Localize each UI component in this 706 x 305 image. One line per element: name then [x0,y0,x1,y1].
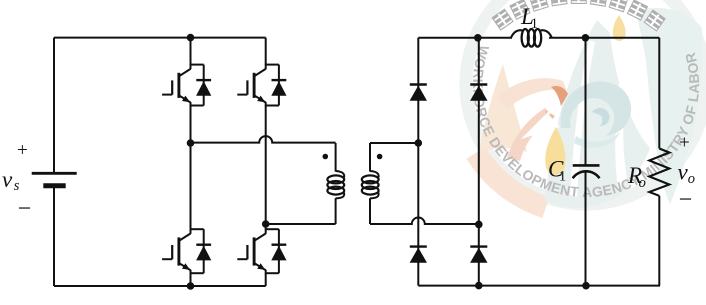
battery Vs [53,38,55,173]
wire secondary top [370,142,418,144]
node rail2 bottom [475,282,483,290]
wire leg1 lower [190,273,192,286]
wire Ro upper [658,38,660,149]
wire leg1 mid to primary (hop over leg2) [191,136,336,143]
watermark peach triangle [479,64,527,152]
capacitor C1 [573,165,600,178]
wire left lower [53,186,55,286]
watermark peach ring band [476,153,546,208]
wire leg1 upper [190,38,192,65]
node leg1 midpoint [187,139,195,147]
transformer T1 secondary winding [362,143,379,224]
watermark chinese ring text [491,8,513,30]
watermark outer ring [466,0,706,204]
wire Ro lower [658,196,660,286]
node C1 bottom [582,282,590,290]
wire leg2 upper [265,38,267,65]
polarity dot secondary [377,154,383,160]
svg-text:−: − [18,196,32,222]
node top rail / leg1 [187,34,195,42]
wire secondary bottom (hop over rail1) [370,218,479,224]
wire bottom rail left [54,285,266,287]
wire bottom rail right [418,285,660,287]
wire top rail right (right of L1) [549,37,659,39]
node rail2 top [474,34,482,42]
wire leg2 lower [265,273,267,286]
node rail2 secondary tap [475,221,483,229]
wire primary bottom [266,223,336,225]
battery plate long [32,172,77,175]
wire rail1 [417,38,419,286]
watermark teal fan [545,20,650,208]
inductor L1 [511,29,552,47]
diode D1 [410,85,427,101]
watermark red vertex accent [551,86,568,106]
watermark teal knot comma [592,108,610,126]
node C1 top [582,34,590,42]
watermark red inner accent [545,110,555,125]
watermark white slash 1 [570,40,595,197]
battery plate short [43,183,65,188]
diode D4 [470,247,487,263]
diode D3 [410,247,427,263]
node bottom rail / leg1 [187,282,195,290]
transistor Q2 [237,64,286,107]
node rail1 secondary tap [415,139,423,147]
watermark teal right wing [636,8,702,204]
watermark yellow flame centre [545,127,565,175]
watermark white slash 2 [615,68,627,190]
transistor Q4 [237,228,286,274]
transformer T1 primary winding [327,143,344,224]
resistor Ro [649,149,669,196]
wire top rail left [54,37,266,39]
watermark salmon lower arm [507,108,553,161]
wire C1 upper [585,38,587,165]
transistor Q1 [162,64,211,107]
wire C1 lower [585,172,587,286]
watermark salmon upper arm [496,78,567,110]
watermark white arrow [521,99,561,139]
watermark yellow flame top [613,15,626,41]
watermark teal knot spiral [561,82,631,136]
wire top rail right (left of L1) [418,37,512,39]
svg-text:+: + [17,140,28,161]
svg-text:+: + [679,133,690,154]
node leg2 midpoint [262,220,270,228]
transistor Q3 [162,228,211,274]
watermark teal crescent accent [574,132,620,148]
diode D2 [470,85,487,101]
polarity dot primary [323,154,329,160]
wire leg2 middle [265,106,267,230]
wire rail2 [478,38,480,286]
wire leg1 middle [190,106,192,230]
svg-text:−: − [679,187,693,213]
